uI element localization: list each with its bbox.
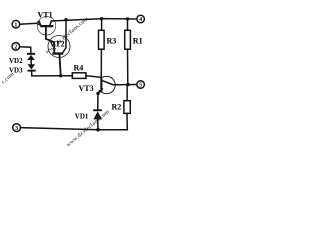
svg-text:VT1: VT1 (38, 11, 53, 20)
diode VD3 (triangle apex down, cathode bar bottom) (28, 64, 36, 69)
junction dot VD1 on bottom rail (96, 128, 100, 132)
svg-text:VT2: VT2 (50, 40, 65, 49)
svg-text:VT3: VT3 (79, 84, 94, 93)
wire VT1 base stem down with jog to VT2 (46, 27, 55, 52)
junction dot node R1 R2 terminal5 (126, 83, 130, 87)
transistor VT1 base bar (40, 25, 53, 27)
wire top rail (52, 19, 137, 21)
svg-text:R4: R4 (74, 64, 84, 73)
svg-text:4: 4 (139, 17, 142, 23)
arrow VT1 emitter (37, 20, 42, 25)
terminal 1 (12, 20, 20, 28)
wire between VD2 and VD3 (30, 60, 32, 65)
wire VT1 right leg (collector) to rail (50, 21, 52, 25)
resistor R1 (125, 30, 131, 49)
svg-text:2: 2 (14, 45, 17, 51)
wire VT2 base stem down (60, 55, 61, 76)
transistor VT3 base bar (100, 78, 102, 92)
wire bottom rail (21, 128, 128, 130)
wire node to R2 top (126, 85, 128, 101)
svg-text:R2: R2 (112, 103, 122, 112)
wire VT1 left leg (emitter) (37, 23, 42, 25)
junction dot VT2 base / R4 (59, 74, 62, 77)
svg-text:1: 1 (14, 22, 17, 28)
wire R3 top lead (101, 19, 103, 31)
wire R2 bottom to bottom rail (126, 113, 128, 129)
wire VD1 bottom lead (97, 119, 99, 129)
svg-text:VD1: VD1 (75, 113, 89, 121)
wire terminal1 to VT1 emitter (20, 22, 37, 25)
terminal numbers (14, 17, 142, 132)
arrow VT3 emitter (98, 89, 102, 94)
diode VD1 (cathode bar top, triangle apex up) (93, 109, 102, 111)
svg-text:VD2: VD2 (9, 57, 23, 65)
wire R3 bottom lead to VT3 base (100, 49, 102, 78)
transistor VT2 base bar (52, 52, 63, 54)
wire node to terminal5 (128, 84, 137, 86)
junction dot R1 on rail (126, 17, 129, 20)
wire VT3 emitter to VD1 (98, 89, 102, 93)
svg-text:5: 5 (139, 83, 142, 89)
junction dot R3 on rail (100, 17, 103, 20)
transistor VT2 (48, 36, 70, 58)
terminal 2 (12, 43, 20, 51)
resistor R4 (72, 73, 86, 79)
resistor R3 (99, 30, 105, 49)
wire VT3 emitter node down to VD1 (97, 94, 99, 110)
terminal 5 (137, 81, 145, 89)
labels (9, 11, 143, 121)
arrow VT2 emitter (53, 48, 56, 53)
terminal 3 (13, 124, 21, 132)
base bars and diode plates (27, 17, 130, 132)
wire VT2 right lead to top rail (63, 20, 66, 53)
resistor R2 (124, 101, 130, 114)
wire R1 top lead (127, 19, 129, 30)
junction dot VT2 collector on rail (64, 18, 67, 21)
transistor VT1 (37, 17, 56, 36)
wire VT3 collector to node (102, 81, 128, 85)
wire R4 to VT3 base (86, 76, 101, 78)
svg-text:3: 3 (15, 126, 18, 132)
wire diodes bottom to R4 (32, 72, 73, 76)
terminal 4 (137, 15, 145, 23)
junction dot VT3 emitter (96, 92, 99, 95)
wire terminal2 to diode stack (20, 47, 31, 53)
transistor VT3 (102, 76, 116, 93)
svg-text:R1: R1 (133, 37, 143, 46)
diode VD2 (cathode bar top, triangle apex up) (27, 53, 35, 55)
wire R1 bottom lead to node (127, 49, 129, 84)
watermark (0, 16, 110, 148)
svg-text:R3: R3 (107, 37, 117, 46)
svg-text:VD3: VD3 (9, 67, 23, 75)
